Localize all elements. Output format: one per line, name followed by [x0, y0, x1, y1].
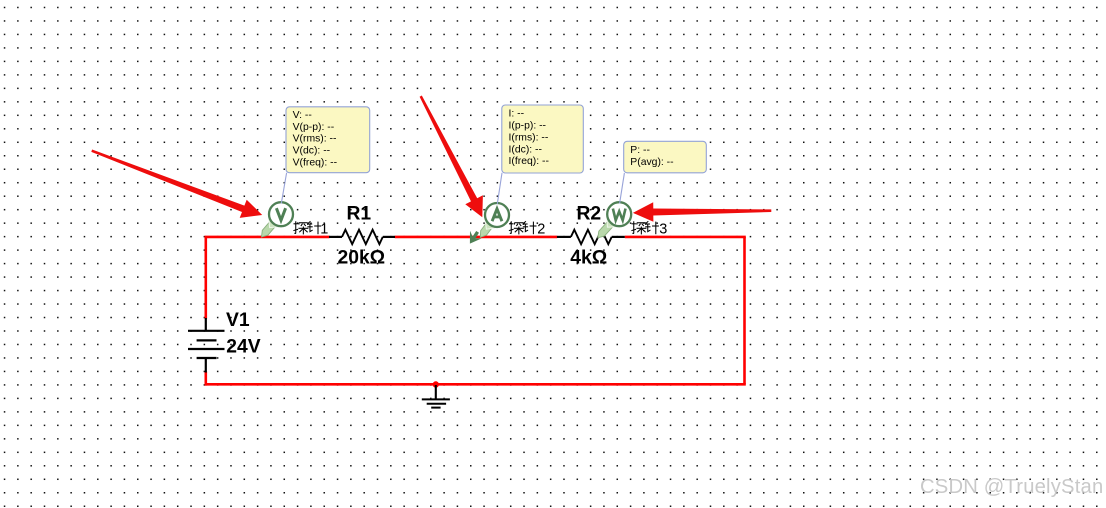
leader line probe W — [620, 173, 625, 204]
leader line probe V — [281, 173, 286, 204]
svg-text:I(freq): --: I(freq): -- — [509, 156, 549, 167]
red arrow 3 — [633, 202, 771, 222]
probe W needle — [598, 218, 616, 238]
svg-text:24V: 24V — [226, 336, 260, 357]
battery V1 — [188, 318, 225, 373]
tooltip P — [624, 141, 707, 173]
svg-text:V(freq): --: V(freq): -- — [293, 158, 337, 169]
label 探针2 — [509, 221, 545, 237]
wire battery bottom lead red — [205, 372, 208, 386]
node junction dot — [433, 381, 439, 387]
svg-text:CSDN @TruelyStan: CSDN @TruelyStan — [920, 476, 1103, 498]
svg-text:I(rms): --: I(rms): -- — [509, 132, 549, 143]
leader line probe A — [497, 173, 502, 204]
svg-text:V(p-p): --: V(p-p): -- — [293, 122, 335, 133]
svg-text:V1: V1 — [226, 310, 250, 331]
svg-text:3: 3 — [659, 221, 667, 237]
svg-text:I(p-p): --: I(p-p): -- — [509, 121, 547, 132]
red arrow 1 — [91, 150, 262, 218]
probe A needle — [480, 219, 495, 237]
svg-text:4kΩ: 4kΩ — [570, 248, 607, 269]
svg-text:P(avg): --: P(avg): -- — [630, 157, 673, 168]
tooltip V — [286, 107, 370, 173]
svg-text:I: --: I: -- — [509, 109, 525, 120]
svg-text:V(rms): --: V(rms): -- — [293, 134, 337, 145]
probe V circle — [269, 202, 293, 226]
probe A dark current arrow — [471, 231, 479, 241]
resistor R2 — [557, 230, 625, 244]
svg-text:1: 1 — [320, 221, 328, 237]
ground — [422, 385, 450, 408]
svg-text:V(dc): --: V(dc): -- — [293, 146, 331, 157]
wire top segment R2 to right corner — [625, 236, 746, 239]
svg-text:V: --: V: -- — [293, 110, 312, 121]
svg-text:2: 2 — [537, 221, 545, 237]
wire left vertical (V1 to top) — [205, 237, 208, 319]
probe A circle — [485, 203, 509, 227]
wire right vertical — [743, 237, 746, 384]
svg-text:R1: R1 — [347, 204, 372, 225]
svg-text:P: --: P: -- — [630, 145, 650, 156]
probe W circle — [607, 202, 631, 226]
wire top segment V1 to R1 — [205, 236, 330, 239]
red arrow 2 — [420, 96, 483, 218]
svg-text:20kΩ: 20kΩ — [338, 248, 386, 269]
wire bottom segment — [205, 383, 746, 386]
label 探针1 — [293, 221, 328, 237]
label 探针3 — [631, 221, 667, 237]
svg-text:I(dc): --: I(dc): -- — [509, 144, 542, 155]
wire top segment R1 to R2 — [395, 236, 558, 239]
probe V needle — [262, 218, 279, 237]
resistor R1 — [329, 230, 395, 244]
svg-text:R2: R2 — [577, 204, 602, 225]
tooltip I — [502, 105, 584, 173]
